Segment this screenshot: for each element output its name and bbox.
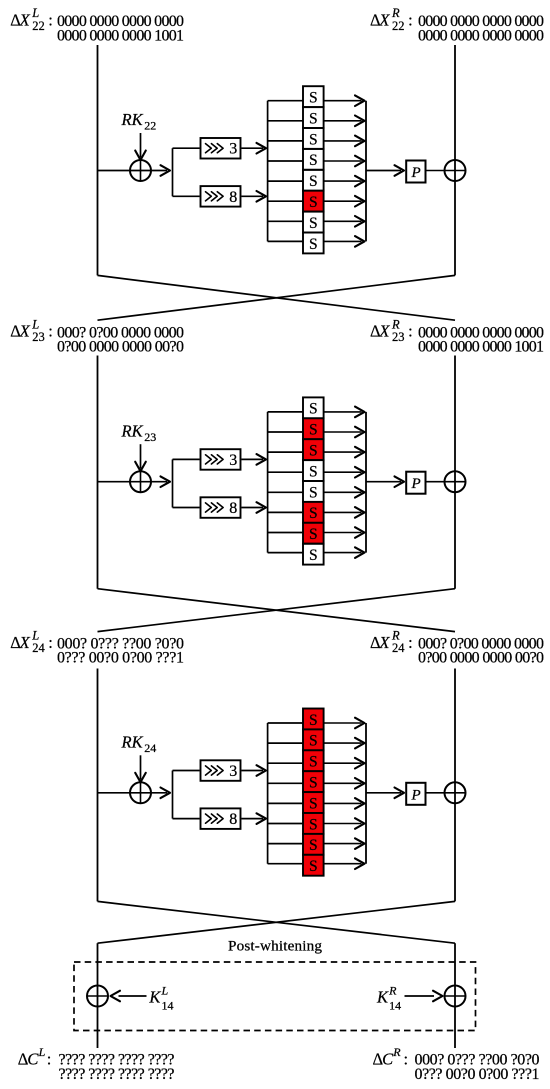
svg-text::: : xyxy=(404,1050,409,1069)
svg-text:R: R xyxy=(388,983,397,997)
svg-text:22: 22 xyxy=(144,119,156,133)
svg-text:S: S xyxy=(309,484,318,501)
svg-text:S: S xyxy=(309,858,318,875)
svg-text:0?00 0000 0000 00?0: 0?00 0000 0000 00?0 xyxy=(418,650,544,667)
svg-text:X: X xyxy=(19,322,31,341)
svg-text:S: S xyxy=(309,505,318,522)
svg-text::: : xyxy=(47,1050,52,1069)
svg-text:0??? 00?0 0?00 ???1: 0??? 00?0 0?00 ???1 xyxy=(415,1066,540,1083)
svg-text:0?00 0000 0000 00?0: 0?00 0000 0000 00?0 xyxy=(57,339,184,356)
svg-text:S: S xyxy=(309,173,318,190)
svg-text:???? ???? ???? ????: ???? ???? ???? ???? xyxy=(59,1066,175,1083)
svg-text:24: 24 xyxy=(144,741,156,755)
svg-text:S: S xyxy=(309,547,318,564)
svg-text:S: S xyxy=(309,463,318,480)
svg-text:23: 23 xyxy=(32,330,45,344)
svg-text:P: P xyxy=(411,787,421,803)
svg-text:K: K xyxy=(376,988,389,1007)
svg-text:8: 8 xyxy=(229,811,237,828)
svg-text::: : xyxy=(408,11,413,30)
svg-text:22: 22 xyxy=(392,19,405,33)
svg-text::: : xyxy=(408,322,413,341)
svg-text:K: K xyxy=(148,988,161,1007)
svg-text:S: S xyxy=(309,733,318,750)
svg-text:S: S xyxy=(309,775,318,792)
svg-text:S: S xyxy=(309,837,318,854)
svg-text:23: 23 xyxy=(392,330,405,344)
svg-text:X: X xyxy=(378,633,390,652)
svg-text:S: S xyxy=(309,110,318,127)
svg-text:14: 14 xyxy=(162,999,174,1013)
svg-text:3: 3 xyxy=(229,763,237,780)
svg-text:14: 14 xyxy=(389,999,401,1013)
svg-text:C: C xyxy=(382,1050,394,1069)
svg-text:S: S xyxy=(309,90,318,107)
svg-text:RK: RK xyxy=(121,733,144,752)
svg-text:L: L xyxy=(161,983,169,997)
svg-text:X: X xyxy=(378,322,390,341)
svg-text:S: S xyxy=(309,131,318,148)
svg-text:S: S xyxy=(309,816,318,833)
svg-text:P: P xyxy=(411,165,421,181)
svg-text:3: 3 xyxy=(229,141,237,158)
svg-text:23: 23 xyxy=(144,430,156,444)
svg-text:S: S xyxy=(309,236,318,253)
svg-text:X: X xyxy=(19,633,31,652)
svg-text:24: 24 xyxy=(32,641,45,655)
svg-text:S: S xyxy=(309,795,318,812)
svg-text:S: S xyxy=(309,526,318,543)
svg-text:3: 3 xyxy=(229,452,237,469)
svg-text::: : xyxy=(48,11,53,30)
svg-text:0000 0000 0000 1001: 0000 0000 0000 1001 xyxy=(418,339,544,356)
svg-text:24: 24 xyxy=(392,641,405,655)
svg-text:X: X xyxy=(378,11,390,30)
svg-text:0??? 00?0 0?00 ???1: 0??? 00?0 0?00 ???1 xyxy=(57,650,184,667)
svg-text::: : xyxy=(408,633,413,652)
svg-text:8: 8 xyxy=(229,189,237,206)
svg-text:RK: RK xyxy=(121,110,144,129)
svg-text:S: S xyxy=(309,194,318,211)
svg-text:Post-whitening: Post-whitening xyxy=(228,938,322,955)
svg-text:S: S xyxy=(309,712,318,729)
svg-text:X: X xyxy=(19,11,31,30)
svg-text:R: R xyxy=(392,1045,401,1059)
svg-text:8: 8 xyxy=(229,500,237,517)
svg-text:S: S xyxy=(309,215,318,232)
svg-text:L: L xyxy=(38,1045,46,1059)
svg-text:RK: RK xyxy=(121,421,144,440)
svg-text:0000 0000 0000 0000: 0000 0000 0000 0000 xyxy=(418,27,544,44)
svg-text:0000 0000 0000 1001: 0000 0000 0000 1001 xyxy=(57,27,184,44)
svg-text:S: S xyxy=(309,443,318,460)
svg-text:S: S xyxy=(309,754,318,771)
svg-text::: : xyxy=(48,633,53,652)
svg-text:S: S xyxy=(309,422,318,439)
svg-text:S: S xyxy=(309,152,318,169)
svg-text:P: P xyxy=(411,476,421,492)
svg-text::: : xyxy=(48,322,53,341)
svg-text:S: S xyxy=(309,401,318,418)
svg-text:C: C xyxy=(27,1050,39,1069)
svg-text:22: 22 xyxy=(32,19,45,33)
